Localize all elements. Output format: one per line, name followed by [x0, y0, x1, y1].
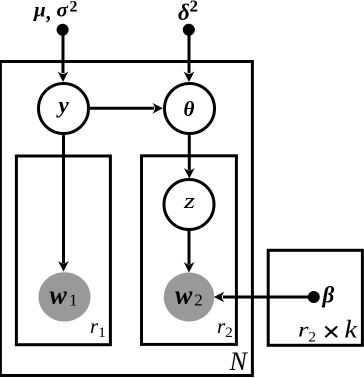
svg-text:θ: θ [184, 97, 195, 121]
node w2 (observed) [164, 273, 214, 322]
arrow beta -> w2 [214, 292, 314, 303]
param dot mu,sigma2 [57, 24, 69, 36]
svg-text:β: β [322, 283, 335, 308]
arrow theta -> z [184, 135, 195, 179]
svg-text:z: z [183, 188, 196, 213]
svg-text:w: w [50, 281, 68, 310]
param dot beta [308, 291, 320, 303]
node w1 (observed) [39, 272, 91, 321]
plate N (outer) [0, 62, 252, 376]
plate r1 [16, 156, 110, 345]
plate r2xk [268, 250, 362, 345]
arrow delta2 -> theta [184, 30, 195, 82]
plate r2 [142, 156, 237, 345]
svg-text:2: 2 [190, 0, 199, 16]
arrow y -> theta [90, 103, 163, 114]
node y [39, 84, 89, 134]
svg-text:,: , [46, 0, 52, 24]
svg-text:2: 2 [70, 0, 78, 16]
svg-text:w: w [175, 281, 193, 310]
svg-text:δ: δ [178, 0, 190, 25]
svg-text:μ: μ [33, 0, 46, 22]
svg-text:N: N [229, 347, 249, 376]
svg-text:y: y [56, 93, 70, 118]
svg-text:k: k [345, 317, 359, 344]
node z [164, 180, 214, 230]
svg-text:1: 1 [69, 290, 78, 309]
svg-text:σ: σ [57, 0, 69, 22]
arrow z -> w2 [184, 231, 195, 273]
node theta [165, 84, 215, 134]
svg-text:2: 2 [309, 330, 317, 346]
svg-text:2: 2 [194, 290, 203, 309]
param dot delta2 [183, 24, 195, 36]
arrow y -> w1 [58, 135, 69, 272]
arrow mu,sigma2 -> y [58, 30, 69, 82]
